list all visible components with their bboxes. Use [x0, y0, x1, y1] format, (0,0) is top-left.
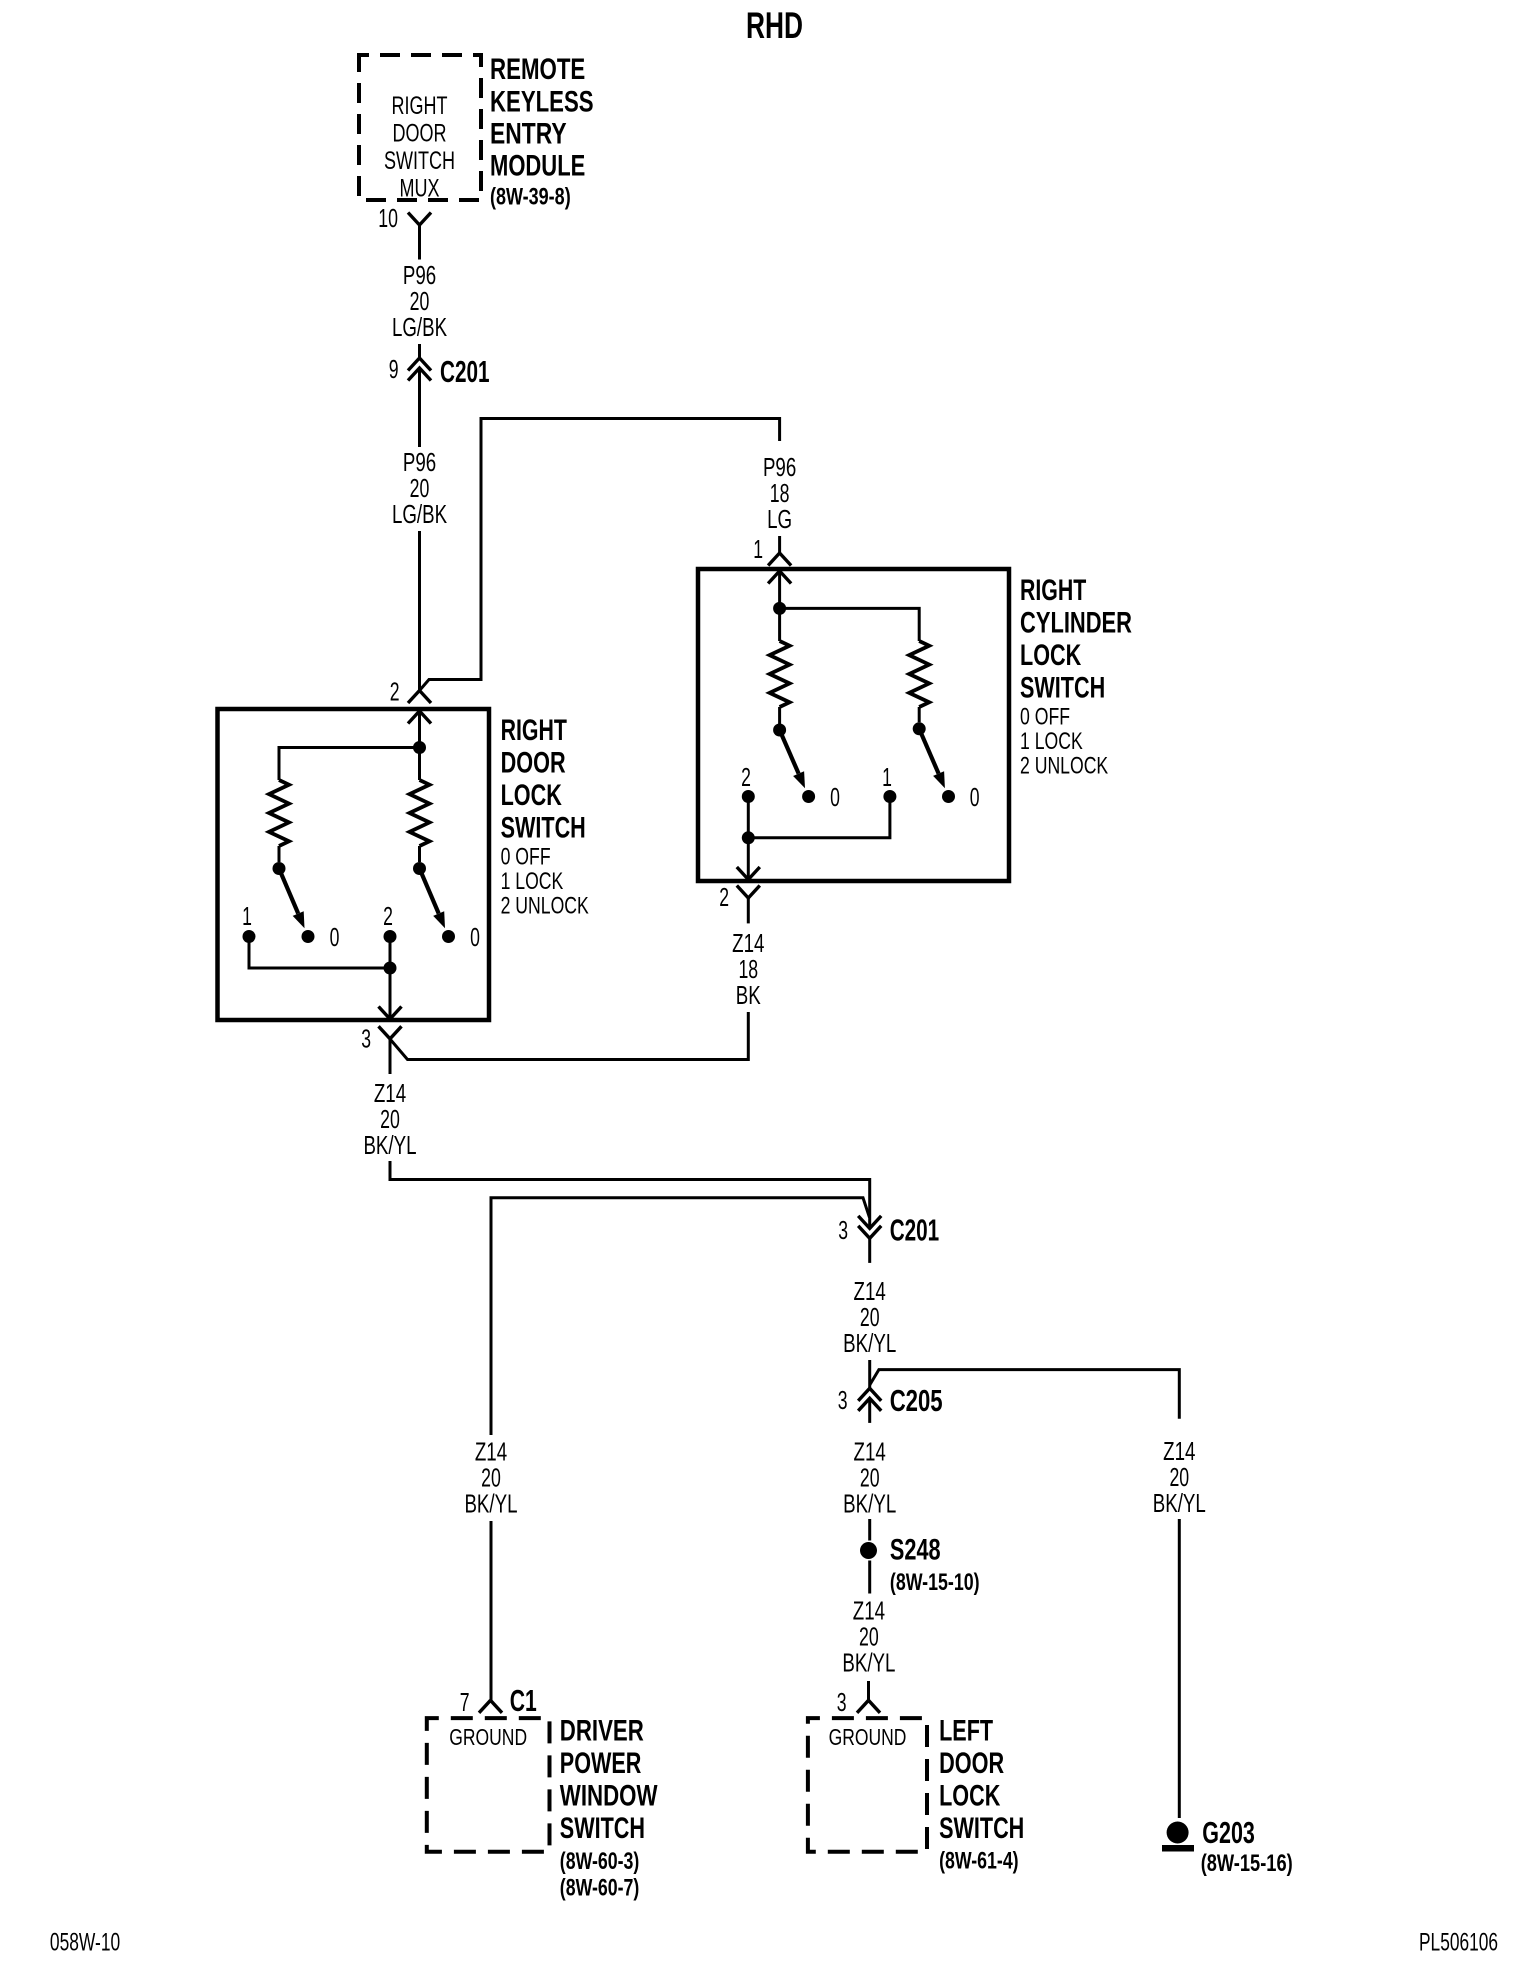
- wire label Z14 20 BK/YL (S248 to left door lock switch): [842, 1596, 895, 1678]
- contact 0 (S2 left): [802, 782, 840, 812]
- svg-text:(8W-61-4): (8W-61-4): [939, 1848, 1019, 1875]
- switch S1 box: RIGHT DOOR LOCK SWITCH: [218, 709, 490, 1020]
- svg-text:(8W-15-10): (8W-15-10): [890, 1569, 980, 1596]
- wire label Z14 18 BK: [732, 928, 764, 1010]
- svg-text:RIGHT: RIGHT: [501, 714, 567, 747]
- svg-text:C201: C201: [890, 1213, 940, 1248]
- svg-text:LG: LG: [767, 504, 792, 534]
- pin 3 of right door lock switch: [361, 1007, 401, 1075]
- svg-text:1: 1: [882, 762, 892, 792]
- switch wiper arm with arrow (S2 left): [780, 730, 805, 788]
- wire Z14 branch (driver power window switch feed): [491, 1198, 870, 1435]
- svg-text:(8W-15-16): (8W-15-16): [1201, 1850, 1293, 1877]
- wire P96 segment (pin10 to label): [418, 246, 421, 260]
- wire Z14 branch to G203: [870, 1370, 1180, 1419]
- node: S1 output junction: [384, 962, 397, 975]
- svg-text:0 OFF: 0 OFF: [1020, 704, 1070, 731]
- svg-text:BK/YL: BK/YL: [842, 1648, 895, 1678]
- svg-text:DRIVER: DRIVER: [560, 1715, 644, 1748]
- svg-text:BK/YL: BK/YL: [1153, 1488, 1206, 1518]
- svg-text:RIGHT: RIGHT: [392, 92, 448, 120]
- svg-text:3: 3: [837, 1687, 847, 1717]
- svg-text:MODULE: MODULE: [490, 150, 585, 183]
- switch wiper pivot (S1 right): [413, 862, 426, 875]
- svg-text:1 LOCK: 1 LOCK: [1020, 728, 1083, 755]
- svg-text:RIGHT: RIGHT: [1020, 574, 1086, 607]
- svg-text:BK/YL: BK/YL: [363, 1130, 416, 1160]
- svg-text:1: 1: [753, 534, 763, 564]
- svg-text:0: 0: [830, 782, 840, 812]
- wire Z14 (label to C1 pin 7): [490, 1521, 493, 1700]
- svg-text:WINDOW: WINDOW: [560, 1780, 658, 1813]
- wire P96 segment (label to pin 1): [778, 536, 781, 553]
- svg-text:2 UNLOCK: 2 UNLOCK: [1020, 752, 1109, 779]
- connector C1 pin 7 of driver power window switch: [460, 1683, 537, 1718]
- resistor in S2 right branch: [909, 641, 929, 722]
- contact 2 (S2): [741, 762, 755, 803]
- svg-text:BK: BK: [736, 980, 761, 1010]
- switch wiper arm with arrow (S2 right): [919, 729, 945, 788]
- svg-text:LOCK: LOCK: [1020, 639, 1081, 672]
- wire Z14 (label to pin 3 left door lock switch): [867, 1681, 870, 1700]
- wire label Z14 20 BK/YL (below C201): [843, 1276, 896, 1358]
- svg-text:3: 3: [838, 1385, 848, 1415]
- wire label P96 20 LG/BK (upper): [392, 260, 448, 342]
- svg-text:C201: C201: [440, 354, 490, 389]
- svg-text:(8W-39-8): (8W-39-8): [490, 184, 571, 211]
- wire label Z14 20 BK/YL (C205 to S248): [843, 1437, 896, 1519]
- svg-text:10: 10: [378, 203, 398, 233]
- svg-text:2: 2: [383, 901, 393, 931]
- wire contact2 to junction (S2): [747, 797, 750, 838]
- svg-text:SWITCH: SWITCH: [1020, 672, 1105, 705]
- switch wiper pivot (S1 left): [273, 862, 286, 875]
- svg-text:G203: G203: [1202, 1815, 1255, 1850]
- svg-text:REMOTE: REMOTE: [490, 53, 585, 86]
- svg-text:DOOR: DOOR: [393, 120, 447, 148]
- module M1: RIGHT DOOR SWITCH MUX (dashed box): [359, 55, 481, 203]
- svg-text:BK/YL: BK/YL: [843, 1328, 896, 1358]
- connector C205 pin 3: [838, 1383, 943, 1423]
- svg-text:058W-10: 058W-10: [50, 1928, 120, 1956]
- component box: LEFT DOOR LOCK SWITCH (GROUND, dashed): [808, 1718, 927, 1852]
- wire contact2 through junction to pin 3 (S1): [389, 937, 392, 1019]
- contact 0 (S1 left): [302, 922, 340, 952]
- svg-text:POWER: POWER: [560, 1747, 642, 1780]
- node: S1 internal junction: [413, 741, 426, 754]
- wire Z14 (right box to pin3 node): [390, 1012, 748, 1060]
- switch wiper arm with arrow (S1 left): [279, 869, 305, 929]
- connector C201 pin 9: [389, 354, 490, 389]
- resistor in S1 right branch: [410, 780, 430, 862]
- svg-text:LG/BK: LG/BK: [392, 499, 448, 529]
- switch wiper arm with arrow (S1 right): [420, 869, 446, 929]
- svg-text:ENTRY: ENTRY: [490, 118, 567, 151]
- svg-text:SWITCH: SWITCH: [501, 812, 586, 845]
- wire Z14 (label to splice S248): [868, 1519, 871, 1541]
- svg-text:2: 2: [719, 882, 729, 912]
- svg-text:GROUND: GROUND: [449, 1724, 527, 1750]
- svg-text:BK/YL: BK/YL: [464, 1489, 517, 1519]
- svg-text:1 LOCK: 1 LOCK: [501, 868, 564, 895]
- wire junction to contact1 (S2): [748, 797, 890, 838]
- svg-text:MUX: MUX: [400, 175, 440, 203]
- pin 1 of right cylinder lock switch S2: [753, 534, 791, 608]
- label RIGHT DOOR LOCK SWITCH: [501, 714, 586, 845]
- svg-text:3: 3: [361, 1024, 371, 1054]
- wire Z14 (label to C205): [868, 1360, 871, 1388]
- svg-text:LOCK: LOCK: [939, 1780, 1000, 1813]
- contact 0 (S1 right): [442, 922, 480, 952]
- pin 2 of right cylinder lock switch: [719, 867, 760, 923]
- wire Z14 (S248 to label): [868, 1561, 871, 1594]
- svg-text:0: 0: [470, 922, 480, 952]
- wire label P96 20 LG/BK (lower): [392, 447, 448, 529]
- wire label P96 18 LG: [763, 452, 796, 534]
- pin 2 of right door lock switch S1: [390, 677, 431, 748]
- svg-text:C205: C205: [890, 1383, 943, 1418]
- svg-text:S248: S248: [890, 1534, 941, 1567]
- contact 2 (S1): [383, 901, 396, 943]
- svg-text:BK/YL: BK/YL: [843, 1489, 896, 1519]
- label S2 legend 0 OFF / 1 LOCK / 2 UNLOCK: [1020, 704, 1109, 780]
- label S1 legend 0 OFF / 1 LOCK / 2 UNLOCK: [501, 844, 590, 920]
- resistor in S2 left branch: [770, 641, 790, 724]
- connector C201 pin 3: [838, 1213, 939, 1263]
- switch wiper pivot (S2 left): [773, 724, 786, 737]
- wire Z14 (label to connector C201 pin3): [390, 1161, 870, 1227]
- wire contact1 to junction (S1): [249, 937, 390, 969]
- svg-text:SWITCH: SWITCH: [560, 1812, 645, 1845]
- svg-text:DOOR: DOOR: [501, 747, 566, 780]
- svg-text:LOCK: LOCK: [501, 779, 562, 812]
- svg-text:0: 0: [330, 922, 340, 952]
- label DRIVER POWER WINDOW SWITCH (8W-60-3)(8W-60-7): [560, 1715, 658, 1902]
- wire S2 internal to right branch: [780, 608, 920, 641]
- resistor in S1 left branch: [269, 780, 289, 862]
- switch S2 box: RIGHT CYLINDER LOCK SWITCH: [698, 569, 1009, 881]
- svg-text:GROUND: GROUND: [829, 1724, 907, 1750]
- svg-text:SWITCH: SWITCH: [939, 1812, 1024, 1845]
- svg-text:3: 3: [838, 1215, 848, 1245]
- wire Z14 (label to ground G203): [1178, 1519, 1181, 1818]
- component box: DRIVER POWER WINDOW SWITCH (GROUND, dashed): [427, 1718, 550, 1852]
- svg-text:KEYLESS: KEYLESS: [490, 86, 594, 119]
- switch wiper pivot (S2 right): [913, 722, 926, 735]
- wire label Z14 20 BK/YL (C1 branch): [464, 1437, 517, 1519]
- wire label Z14 20 BK/YL (below S1): [363, 1078, 416, 1160]
- svg-text:(8W-60-3): (8W-60-3): [560, 1848, 640, 1875]
- label LEFT DOOR LOCK SWITCH (8W-61-4): [939, 1715, 1024, 1875]
- wire S2 junction to left resistor: [778, 608, 781, 641]
- svg-text:LG/BK: LG/BK: [392, 312, 448, 342]
- svg-text:(8W-60-7): (8W-60-7): [560, 1875, 640, 1902]
- svg-text:C1: C1: [510, 1683, 537, 1718]
- wire label Z14 20 BK/YL (G203 branch): [1153, 1436, 1206, 1518]
- wire junction to pin 2 (S2): [747, 838, 750, 879]
- svg-text:CYLINDER: CYLINDER: [1020, 607, 1132, 640]
- wire P96 segment (label to C201): [418, 344, 421, 358]
- contact 1 (S2): [882, 762, 896, 803]
- wire S1 internal to left branch: [279, 748, 420, 781]
- svg-text:7: 7: [460, 1687, 470, 1717]
- pin 10 of module M1: [378, 203, 431, 246]
- svg-text:9: 9: [389, 354, 399, 384]
- svg-text:2 UNLOCK: 2 UNLOCK: [501, 892, 590, 919]
- wire P96 segment (C201 to label): [418, 370, 421, 447]
- label RIGHT CYLINDER LOCK SWITCH: [1020, 574, 1132, 705]
- svg-text:RHD: RHD: [746, 5, 803, 46]
- wire branch P96 to right cylinder lock switch: [420, 419, 780, 691]
- node: S2 internal junction: [773, 602, 786, 615]
- svg-text:DOOR: DOOR: [939, 1747, 1004, 1780]
- svg-text:SWITCH: SWITCH: [384, 147, 455, 175]
- svg-text:0: 0: [970, 782, 980, 812]
- node: S2 output junction: [742, 831, 755, 844]
- contact 0 (S2 right): [942, 782, 979, 812]
- svg-text:2: 2: [741, 762, 751, 792]
- svg-text:0 OFF: 0 OFF: [501, 844, 551, 871]
- wire S1 internal right branch: [418, 748, 421, 781]
- svg-text:PL506106: PL506106: [1419, 1929, 1498, 1957]
- wire P96 segment (label to pin 2 node): [418, 531, 421, 691]
- svg-text:2: 2: [390, 677, 400, 707]
- label REMOTE KEYLESS ENTRY MODULE (8W-39-8): [490, 53, 594, 211]
- pin 3 of left door lock switch: [837, 1687, 880, 1717]
- svg-text:LEFT: LEFT: [939, 1715, 993, 1748]
- svg-text:1: 1: [242, 901, 252, 931]
- contact 1 (S1): [242, 901, 255, 943]
- ground G203: [1162, 1815, 1293, 1877]
- splice S248 (8W-15-10): [860, 1534, 980, 1597]
